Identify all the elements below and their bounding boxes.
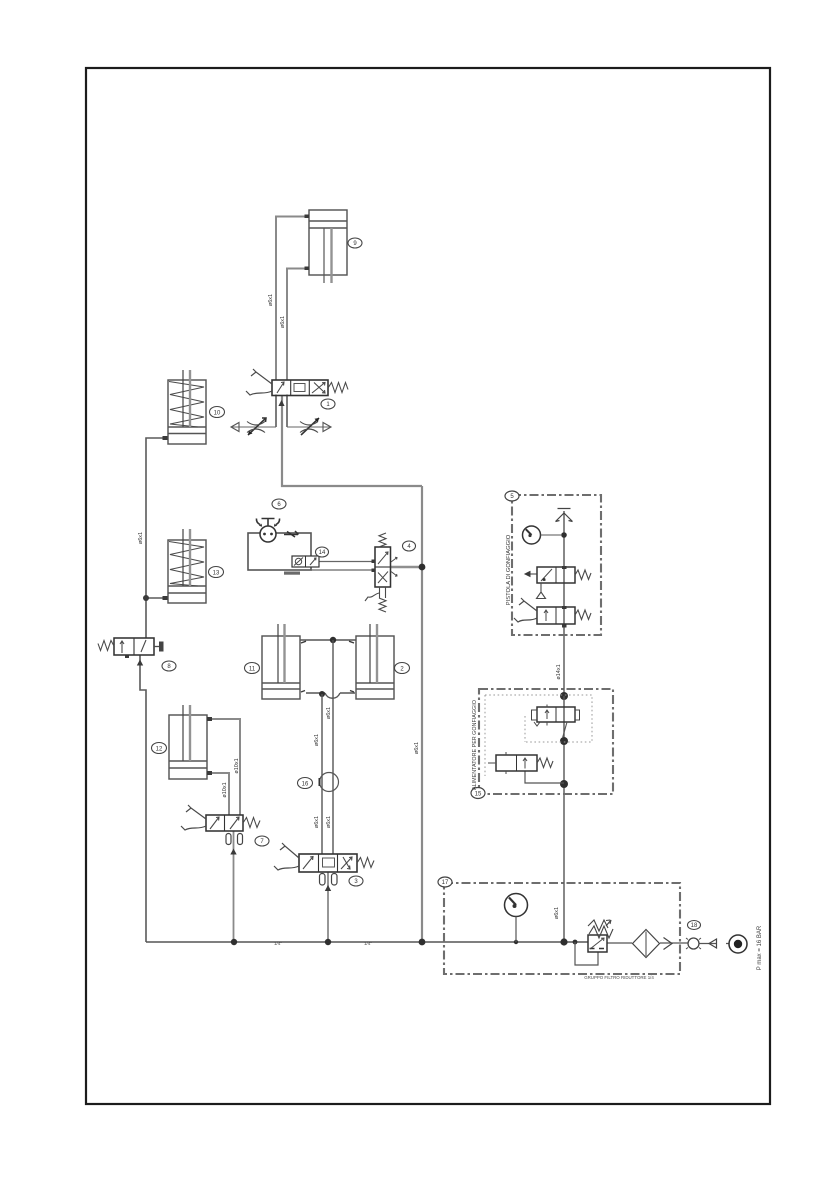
quick coupling — [688, 938, 699, 949]
svg-text:ø6x1: ø6x1 — [314, 816, 320, 828]
valve 7 body 5/2 — [206, 815, 243, 831]
svg-text:12: 12 — [156, 746, 163, 752]
cylinder 13 port tick — [163, 596, 168, 600]
wire regulator bypass loop — [575, 942, 598, 965]
valve 7 pedal actuator — [186, 805, 206, 819]
cylinder 12 port ticks — [207, 717, 212, 721]
flow control left — [231, 426, 276, 428]
cylinder 2 body — [356, 636, 394, 699]
tiny label under knob box — [284, 572, 300, 575]
cylinder 13 rod — [182, 529, 184, 586]
pistola box dash-dot border — [512, 495, 601, 635]
pistola valve B port ticks — [562, 606, 567, 609]
svg-text:ø10x1: ø10x1 — [222, 782, 228, 797]
node alimentatore mid junction — [560, 737, 568, 745]
alimentatore valve D left stub — [488, 762, 496, 764]
valve 4 top spring — [379, 533, 386, 547]
pistola valve B pedal — [519, 598, 537, 611]
wire valve1 supply P down then right to bus riser (gray) — [282, 395, 422, 486]
pistola valve B spring — [575, 610, 591, 620]
cylinder 9 port ticks — [305, 215, 310, 219]
valve 4 bottom spring — [379, 598, 386, 612]
node bus alimentatore riser — [560, 938, 567, 945]
node alimentatore top junction — [560, 692, 568, 700]
supply arrow valve3 — [325, 885, 331, 891]
air prep gauge — [505, 894, 528, 917]
alimentatore box dash-dot border — [479, 689, 613, 794]
svg-text:ø6x1: ø6x1 — [326, 707, 332, 719]
cylinder 10 port tick — [163, 436, 168, 440]
cylinder 9 body — [309, 210, 347, 275]
valve 4 left port ticks — [372, 560, 376, 564]
valve 8 plunger right — [154, 646, 159, 648]
wire cyl12 top port to valve7 — [207, 719, 240, 815]
label circle 17 air prep — [438, 877, 452, 887]
svg-text:1/4": 1/4" — [364, 941, 372, 946]
svg-text:10: 10 — [214, 410, 221, 416]
label circle 11 — [245, 663, 260, 674]
label circle 14 — [316, 547, 329, 557]
wire regulator to filter to outlet — [607, 942, 688, 944]
wire valve4 to right riser (gray) — [390, 566, 422, 568]
filter separator diamond — [633, 930, 660, 958]
svg-text:ALIMENTATORE PER GONFIAGGIO: ALIMENTATORE PER GONFIAGGIO — [472, 700, 478, 790]
valve 7 arrows — [210, 817, 239, 829]
valve 1 body 5/3 — [272, 380, 328, 396]
label circle 7 — [255, 836, 269, 846]
pistola valve B body — [537, 607, 575, 624]
valve 8 arrows — [120, 641, 124, 653]
cylinder 12 body — [169, 715, 207, 779]
svg-text:17: 17 — [442, 880, 449, 886]
wire pistola riser vertical — [563, 511, 565, 696]
label circle 12 — [152, 743, 167, 754]
node bus right riser — [419, 939, 426, 946]
valve 7 mufflers — [226, 834, 231, 845]
node pistola gauge junction — [561, 532, 567, 538]
regulator body — [588, 935, 607, 952]
supply arrow valve7 — [230, 849, 236, 855]
label circle 2 — [395, 663, 410, 674]
wire knob box out to valve4 port 1 — [319, 561, 375, 563]
svg-text:ø6x1: ø6x1 — [138, 532, 144, 544]
label circle 1 — [321, 399, 335, 409]
label circle 18 coupling — [688, 921, 701, 930]
node bus gauge stem — [514, 940, 518, 944]
cylinder 9 piston — [309, 221, 347, 228]
label circle 10 — [210, 407, 225, 418]
svg-text:ø6x1: ø6x1 — [280, 316, 286, 328]
svg-text:14: 14 — [319, 550, 326, 556]
node alimentatore bottom junction — [560, 780, 568, 788]
pistola gauge — [523, 526, 541, 544]
node bottom link junction — [319, 691, 325, 697]
svg-text:ø6x1: ø6x1 — [268, 294, 274, 306]
svg-text:P max = 16 BAR: P max = 16 BAR — [757, 925, 763, 970]
svg-text:16: 16 — [302, 781, 309, 787]
valve 4 body vertical — [375, 547, 391, 587]
node bus valve3 — [325, 939, 331, 945]
alimentatore pilot dotted lines — [485, 695, 592, 776]
svg-text:ø6x1: ø6x1 — [326, 816, 332, 828]
valve 8 bottom tick — [125, 656, 129, 659]
valve 1 pedal actuator — [251, 369, 272, 384]
alimentatore valve D body — [496, 755, 537, 771]
svg-text:13: 13 — [213, 570, 220, 576]
knob metering box loop — [248, 533, 311, 570]
label circle 5 pistola — [505, 491, 519, 501]
wire valve8 out down to bottom bus — [140, 655, 146, 942]
supply arrow valve1 — [278, 400, 284, 406]
wire coupling to source — [699, 943, 729, 945]
valve 3 pedal actuator — [280, 843, 299, 858]
flow control right — [287, 426, 331, 428]
valve 1 arrows — [277, 382, 284, 393]
wire right bus riser down to bottom bus — [421, 486, 423, 942]
label circle 13 — [209, 567, 224, 578]
wire cyl13 port to left riser — [146, 597, 168, 599]
valve 1 spring — [328, 383, 348, 393]
label circle 15 alimentatore — [471, 788, 485, 799]
svg-text:ø6x1: ø6x1 — [554, 907, 560, 919]
node bus valve7 — [231, 939, 237, 945]
svg-text:ø6x1: ø6x1 — [414, 742, 420, 754]
cylinder 11 body — [262, 636, 300, 699]
alimentatore valve D spring — [537, 758, 553, 768]
pistola valve A body — [537, 567, 575, 583]
cylinder 11 rod — [277, 624, 279, 683]
pistola valve A spring — [575, 570, 591, 580]
valve 3 arrows — [303, 857, 352, 870]
supply arrow valve8 — [137, 660, 143, 666]
label circle 9 — [348, 238, 362, 248]
svg-text:15: 15 — [475, 791, 482, 797]
source circle — [729, 935, 747, 953]
valve 8 body 3/2 — [114, 638, 154, 655]
alimentatore valve C body — [537, 707, 575, 722]
cylinder 10 body (spring return) — [168, 380, 206, 444]
source triangle — [709, 939, 717, 948]
label circle 4 — [403, 541, 416, 551]
cylinder 10 rod — [182, 370, 184, 427]
valve 4 right exhaust arrows — [391, 557, 397, 576]
valve 4 bottom stem and lever — [380, 587, 386, 598]
cylinder 13 body (spring return) — [168, 540, 206, 603]
pistola valve A port tick — [562, 566, 567, 569]
knob rotary handle — [260, 526, 276, 542]
cylinder 13 spring — [169, 542, 204, 587]
label circle 8 — [162, 661, 176, 671]
wire alimentatore riser vertical — [563, 696, 565, 942]
wire bottom link down to valve3 — [321, 694, 323, 854]
node cyl13 junction — [143, 595, 149, 601]
cylinder 11 and 2 port ticks — [301, 641, 354, 692]
pistola exhaust symbol — [556, 509, 573, 522]
node valve4 riser junction — [419, 564, 426, 571]
flow chevron — [664, 938, 673, 950]
valve 7 spring — [243, 818, 260, 828]
label circle 3 — [349, 876, 363, 886]
wire top link down to valve3 — [332, 640, 334, 854]
svg-text:ø14x1: ø14x1 — [556, 664, 562, 679]
check component on box top edge — [284, 531, 299, 537]
svg-text:ø6x1: ø6x1 — [314, 734, 320, 746]
svg-text:ø10x1: ø10x1 — [234, 758, 240, 773]
valve 3 spring — [357, 858, 374, 868]
wire cyl9 port B to valve1 (gray) — [287, 269, 309, 381]
air prep box dash-dot border — [444, 883, 680, 974]
regulator spring — [588, 920, 613, 938]
wire valve7 supply down to bottom bus — [233, 831, 235, 942]
wire cyl10 port to left riser — [146, 438, 168, 638]
cylinder 2 rod — [369, 624, 371, 683]
wire valve1 exhaust right to flow control — [286, 395, 288, 428]
pistola valve A exhaust arrow left — [525, 572, 537, 577]
wire knob box bottom to valve4 port 2 — [311, 569, 375, 571]
bottom bus main line — [146, 941, 588, 943]
valve 3 body 5/3 — [299, 854, 357, 872]
alimentatore valve C pilot link — [563, 722, 568, 738]
coupler 16 circle — [320, 773, 339, 792]
label circle 6 — [272, 499, 286, 509]
wire cyl12 bottom port to valve7 — [207, 773, 229, 815]
pistola valve A manual drain — [537, 583, 546, 599]
wire link cyl11 cyl2 bottom ports with hop — [306, 693, 355, 698]
wire valve3 supply down to bottom bus — [327, 872, 329, 942]
wire cyl9 port A to valve1 (gray) — [276, 217, 309, 381]
cylinder 12 rod — [182, 705, 184, 761]
valve 14 small metering valve — [292, 556, 319, 567]
svg-text:GRUPPO FILTRO RIDUTTORE 1/4: GRUPPO FILTRO RIDUTTORE 1/4 — [584, 975, 654, 980]
node bus regulator branch — [573, 940, 578, 945]
svg-text:18: 18 — [691, 923, 698, 929]
cylinder 10 spring — [169, 382, 204, 428]
label circle 16 — [298, 778, 313, 789]
svg-text:1/4": 1/4" — [274, 941, 282, 946]
wire valve D out to riser — [525, 771, 564, 783]
cylinder 9 rod — [323, 228, 325, 283]
valve 4 arrows — [378, 552, 388, 583]
valve 3 mufflers — [320, 874, 326, 886]
valve 8 spring left — [98, 641, 114, 651]
wire valve1 exhaust left to flow control — [275, 395, 277, 428]
svg-text:11: 11 — [249, 666, 256, 672]
wire link cyl11 cyl2 top ports — [300, 639, 356, 641]
node top link junction — [330, 637, 336, 643]
svg-text:PISTOLA DI GONFIAGGIO: PISTOLA DI GONFIAGGIO — [506, 534, 512, 605]
border frame — [86, 68, 770, 1104]
